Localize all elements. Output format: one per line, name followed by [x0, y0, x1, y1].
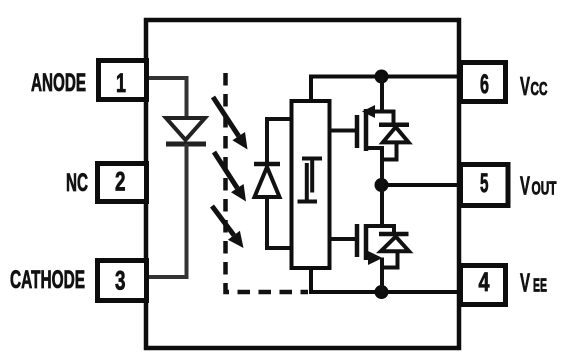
svg-text:V: V — [520, 171, 530, 201]
svg-text:CC: CC — [531, 78, 548, 99]
node VEE junction — [375, 285, 389, 299]
pin box 5 — [461, 165, 509, 206]
pin box 2 — [98, 164, 147, 202]
wire LED cathode to pin3 — [149, 144, 187, 277]
svg-text:1: 1 — [116, 68, 126, 98]
VOUT rail — [382, 183, 459, 187]
pin box 4 — [461, 266, 506, 305]
wire photodiode top — [267, 119, 292, 162]
transistor Q1 (P-channel MOSFET) — [357, 109, 366, 151]
svg-text:ANODE: ANODE — [31, 70, 86, 97]
svg-text:2: 2 — [115, 167, 126, 197]
svg-text:5: 5 — [480, 168, 489, 198]
body diode D3 — [379, 125, 409, 143]
pin box 1 — [99, 61, 147, 100]
Q1 source arrow — [362, 105, 375, 118]
light arrow 2 — [214, 152, 246, 202]
body diode D4 — [379, 234, 409, 251]
package outline U1 — [146, 20, 459, 348]
schmitt trigger block U2 — [292, 101, 330, 268]
wire photodiode bottom — [267, 197, 292, 248]
svg-text:V: V — [520, 268, 530, 298]
svg-text:V: V — [520, 71, 530, 101]
wire schmitt bottom stub — [309, 268, 313, 292]
pin box 3 — [98, 261, 147, 301]
pin box 6 — [461, 63, 506, 102]
svg-text:3: 3 — [115, 266, 126, 296]
node VCC junction — [375, 70, 389, 84]
VEE rail — [309, 290, 459, 294]
light arrow 3 — [212, 206, 244, 248]
svg-text:NC: NC — [66, 170, 88, 197]
wire gate top MOSFET — [329, 129, 355, 133]
transistor Q2 (N-channel MOSFET) — [357, 224, 366, 260]
photodiode D2 — [254, 164, 280, 197]
wire schmitt top stub + VCC rail — [311, 77, 459, 102]
isolation barrier (dashed) — [226, 73, 309, 292]
Q2 source arrow — [368, 251, 383, 265]
node VOUT junction — [375, 178, 389, 192]
svg-text:CATHODE: CATHODE — [10, 267, 85, 294]
svg-text:EE: EE — [533, 275, 547, 296]
LED D1 — [166, 118, 206, 144]
wire pin1 to LED anode — [149, 78, 187, 116]
svg-text:6: 6 — [480, 69, 489, 99]
hysteresis symbol — [298, 157, 323, 204]
wire gate bottom MOSFET — [329, 237, 355, 241]
svg-text:OUT: OUT — [532, 178, 557, 199]
svg-text:4: 4 — [479, 267, 490, 297]
light arrow 1 — [213, 97, 248, 150]
